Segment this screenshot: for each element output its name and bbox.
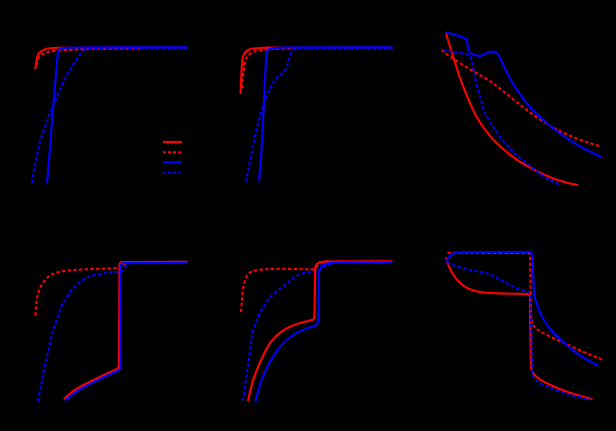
curve TM blue solid <box>259 47 393 182</box>
curve BL blue solid <box>65 263 188 401</box>
curve TR red solid steep <box>446 34 578 186</box>
curve TL blue dashed <box>32 48 188 183</box>
curve BL red solid <box>64 262 188 400</box>
curve TR blue solid <box>446 32 602 158</box>
curve BR blue dashed <box>447 263 591 400</box>
curve BM red dashed <box>241 261 393 312</box>
curve BR blue solid <box>446 252 599 366</box>
curve BM red solid <box>248 261 393 401</box>
curve TM red dashed <box>242 48 300 88</box>
curve BM blue dashed <box>243 263 393 401</box>
curve TR red dashed shallow <box>442 50 601 146</box>
curve TL blue solid <box>47 47 188 183</box>
legend blue solid sample <box>163 161 182 163</box>
curve TM red solid <box>241 47 393 94</box>
legend red dashed sample <box>163 151 182 153</box>
curve TM blue dashed <box>246 48 393 182</box>
legend red solid sample <box>163 141 182 143</box>
curve TL red dashed <box>37 49 141 65</box>
legend blue dashed sample <box>163 172 181 174</box>
curve TR blue dashed <box>443 50 562 185</box>
curve BL blue dashed <box>38 263 188 401</box>
curve BR red dashed <box>448 253 603 360</box>
curve TL red solid <box>35 47 188 69</box>
curve BL red dashed <box>35 262 187 316</box>
curve BR red solid <box>446 258 593 400</box>
curve BM blue solid <box>256 262 393 401</box>
